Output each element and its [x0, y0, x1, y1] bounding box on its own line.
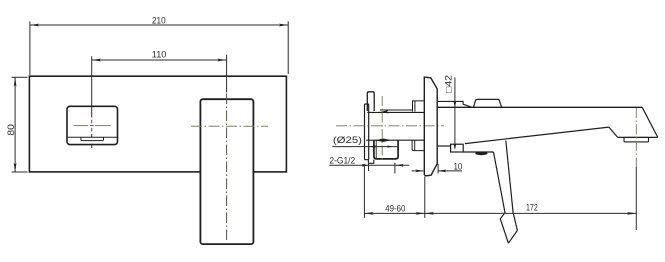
svg-text:210: 210 [152, 16, 166, 26]
dim 80 extension bottom [12, 171, 28, 173]
dim (Ø25) arrow right [387, 145, 393, 147]
svg-text:172: 172 [526, 203, 538, 213]
valve top tab [367, 92, 374, 111]
valve vertical centerline [381, 96, 383, 161]
dim 172 arrow left [425, 212, 434, 215]
plate left extension (shared 49-60 / 172) [424, 177, 426, 218]
dim 210 arrow right [279, 24, 288, 27]
valve body top edge 2 [380, 109, 413, 111]
spout front rect [200, 99, 253, 244]
handle centerline vertical dashes [91, 120, 93, 132]
dim 42 line [454, 77, 456, 148]
dim 49-60 line [364, 212, 424, 214]
collar under spout [451, 144, 464, 152]
2-G1/2 arrow right (points left) [397, 164, 404, 167]
dim 110 arrow right [217, 59, 226, 62]
handle centerline horizontal [74, 125, 111, 127]
dim 110 arrow left [92, 59, 101, 62]
dim 80 extension top [12, 76, 28, 78]
body bottom lens blob [375, 139, 391, 142]
svg-text:110: 110 [152, 50, 167, 60]
dim 80 line [14, 77, 16, 172]
dim (Ø25) arrow left [370, 145, 376, 147]
2-G1/2 extension tick left [368, 163, 370, 171]
2-G1/2 extension tick right [394, 163, 396, 174]
spout vertical centerline [226, 94, 228, 242]
dim 172 arrow right [627, 212, 636, 215]
dim 49-60 arrow right [416, 212, 425, 215]
escutcheon plate (side) [424, 77, 437, 176]
valve body top edge [367, 111, 424, 113]
flange bottom stub [368, 160, 373, 164]
svg-text:10: 10 [453, 161, 462, 171]
handle divider line [68, 136, 117, 138]
dim 49-60 arrow left [364, 212, 373, 215]
handle notch [81, 137, 104, 140]
tip inner diagonal [609, 127, 618, 137]
spout horizontal centerline [191, 125, 268, 127]
dim 210 line [30, 24, 288, 26]
spout top edge [437, 106, 642, 108]
spout underside diagonal [465, 127, 609, 144]
aerator [624, 137, 649, 142]
svg-text:49-60: 49-60 [385, 204, 405, 214]
handle escutcheon [67, 106, 118, 144]
spout tip bevel [642, 107, 658, 137]
2-G1/2 arrow left (points right) [362, 164, 369, 167]
dim 80 arrow bottom [14, 163, 17, 172]
valve horizontal centerline [336, 125, 444, 127]
valve wall flange [365, 104, 369, 160]
dim 110 extension right [226, 55, 228, 93]
dim 10 arrow right (points left) [438, 170, 446, 173]
dim 110 extension left (into handle) [91, 56, 93, 148]
svg-text:80: 80 [6, 124, 16, 136]
2-G1/2 dim line [329, 164, 409, 166]
spout tip centerline [635, 108, 637, 167]
dim 42 arrow bottom [454, 144, 457, 150]
G1/2 inlet box [374, 140, 398, 159]
valve body bottom edge [366, 139, 424, 141]
mounting nut bottom [412, 140, 424, 150]
dim 42 arrow top [454, 101, 457, 107]
handle center cross [90, 125, 94, 127]
spout tip bottom [618, 136, 658, 138]
svg-text:(Ø25): (Ø25) [333, 135, 362, 145]
spout root bottom edge [437, 145, 450, 147]
dim 172 line [425, 212, 637, 214]
dim 110 line [92, 59, 227, 61]
body top arrow blob [379, 110, 389, 113]
dim 10 right extension [437, 164, 439, 174]
handle tip [508, 230, 517, 243]
mounting nut top [413, 101, 425, 112]
inlet box inner line [375, 140, 377, 158]
dim 10 right segment [438, 170, 462, 172]
tip extension line (to 172) [635, 167, 637, 230]
handle lever right edge [506, 141, 518, 231]
cartridge bump [473, 99, 501, 107]
dim 10 arrow left (points right) [415, 170, 423, 173]
dim 210 arrow left [30, 24, 39, 27]
svg-text:□42: □42 [443, 75, 453, 93]
step line after plate [437, 101, 472, 107]
dim 210 extension line right [287, 21, 289, 74]
underside line to handle [463, 151, 493, 153]
wall plate [29, 76, 286, 172]
handle lever left edge [494, 152, 509, 243]
dim 10 left segment [412, 170, 424, 172]
dim (Ø25) line [332, 146, 399, 148]
handle pivot pin (dark ellipse) [475, 152, 487, 156]
dim 210 extension line left [29, 21, 31, 75]
svg-text:2-G1/2: 2-G1/2 [329, 155, 355, 165]
dim 80 arrow top [14, 77, 17, 86]
dim 49-60 left extension [363, 164, 365, 218]
